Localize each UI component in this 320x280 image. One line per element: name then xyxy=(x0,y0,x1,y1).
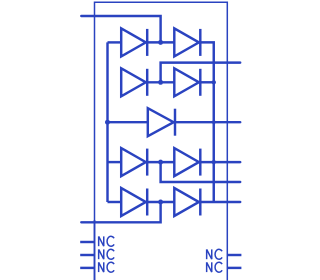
wire row5 anode xyxy=(108,201,122,203)
junction bus row3 xyxy=(105,120,110,125)
wire row5 cathode pin xyxy=(200,201,240,203)
wire row3 anode xyxy=(108,121,148,123)
NC stub left 2 xyxy=(80,254,94,256)
diode D5 row3 xyxy=(148,108,175,136)
junction row5 mid xyxy=(158,200,163,205)
label NC left3 xyxy=(99,262,114,272)
diode D7 row4 right xyxy=(174,148,200,176)
NC stub right 2 xyxy=(227,267,241,269)
wire right cathode bus xyxy=(200,42,213,202)
wire row3 cathode pin7 xyxy=(175,121,240,123)
label NC right1 xyxy=(207,249,222,259)
wire pin5 IO xyxy=(161,162,241,182)
wire row4 cathode pin6 xyxy=(200,161,240,163)
diode D8 row5 left xyxy=(121,188,147,216)
label NC right2 xyxy=(207,262,222,272)
diode D9 row5 right xyxy=(174,188,200,216)
wire pin4 bottom-left xyxy=(81,202,160,222)
label NC left2 xyxy=(99,249,114,259)
diode D2 row1 right xyxy=(174,28,200,56)
NC stub left 3 xyxy=(80,267,94,269)
diode D3 row2 left xyxy=(121,68,147,96)
NC stub left 1 xyxy=(80,241,94,243)
wire row5 mid xyxy=(147,201,174,203)
diode D1 row1 left xyxy=(121,28,147,56)
junction row2 cathode xyxy=(212,80,216,84)
wire row4 mid xyxy=(147,161,174,163)
IC body outline lower-left edge xyxy=(94,220,96,280)
junction right bus row3 xyxy=(212,120,216,124)
diode D6 row4 left xyxy=(121,148,147,176)
label NC left1 xyxy=(99,236,114,246)
wire row2 mid xyxy=(147,81,174,83)
wire pin8 IO xyxy=(161,63,241,83)
NC stub right 1 xyxy=(227,254,241,256)
IC body outline xyxy=(95,2,228,280)
junction row4 mid xyxy=(158,160,163,165)
diode D4 row2 right xyxy=(174,68,200,96)
wire row1 anode xyxy=(108,41,122,43)
wire row1 mid xyxy=(147,41,174,43)
junction right bus row4 xyxy=(212,160,216,164)
wire pin1 top-left xyxy=(81,16,160,42)
junction row2 mid xyxy=(158,80,163,85)
junction row1 mid xyxy=(158,40,163,45)
wire row2 cathode xyxy=(200,81,213,83)
wire left anode bus xyxy=(106,42,108,202)
wire row4 anode xyxy=(108,161,122,163)
